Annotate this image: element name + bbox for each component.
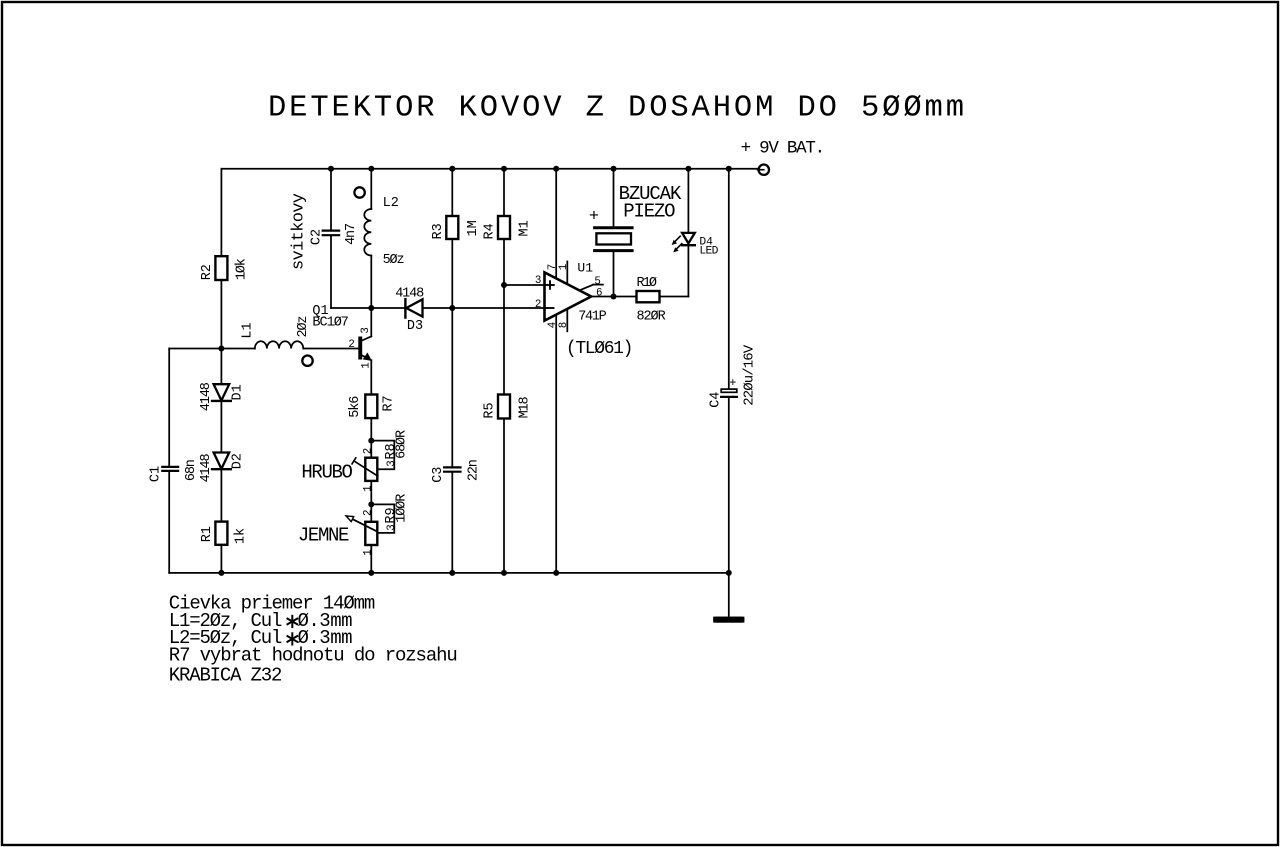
svg-text:68n: 68n [184,459,199,481]
battery terminal [759,165,769,175]
svg-text:22n: 22n [467,459,482,481]
transistor Q1 BC107 [358,337,362,360]
svg-text:R1: R1 [200,526,215,542]
svg-text:D2: D2 [231,453,246,469]
wire C3 to bottom rail [451,473,453,573]
svg-text:4n7: 4n7 [344,223,359,245]
junction dots pot nodes [368,438,374,444]
diode D2 4148 [220,453,222,469]
terminal circle of L1 [302,356,312,366]
svg-text:68ØR: 68ØR [395,430,410,459]
wire Q1 emitter to R7 [370,360,372,394]
diode D1 4148 [220,384,222,400]
wire R3 to node line [451,239,453,308]
svg-text:3: 3 [535,275,541,287]
svg-text:L1: L1 [240,322,255,338]
wire piezo branch top [613,169,615,226]
svg-text:82ØR: 82ØR [637,310,666,325]
op-amp U1 741P [545,272,592,320]
wire opamp pin3 input [504,284,545,286]
svg-text:3: 3 [360,327,372,333]
svg-text:BC1Ø7: BC1Ø7 [312,315,349,330]
svg-text:4148: 4148 [395,286,424,301]
svg-text:2: 2 [362,510,374,516]
svg-text:(TLØ61): (TLØ61) [566,339,634,359]
svg-text:1k: 1k [234,528,249,544]
junction dots top rail [328,166,334,172]
wire R2 to L1 node [220,280,222,349]
wire R9 to bottom rail [370,545,372,573]
resistor R10 820R horizontal [637,291,660,302]
svg-text:R5: R5 [483,402,498,418]
svg-text:22Øu/16V: 22Øu/16V [742,344,758,406]
diode D3 4148 horizontal [404,299,406,318]
svg-text:JEMNE: JEMNE [298,524,350,546]
svg-text:741P: 741P [578,310,607,325]
wire LED branch lower [687,246,689,296]
svg-text:2Øz: 2Øz [296,316,311,338]
svg-text:8: 8 [558,322,570,328]
wire L1 node to D1 [220,349,222,385]
wire top +9V rail [221,168,758,170]
svg-text:5: 5 [594,276,600,288]
wire C4 branch top [728,169,730,389]
wire C2 corner to D3 node line [331,307,404,309]
wire R9 wiper connection [371,504,394,533]
wire R9 node to R9 [370,504,372,521]
svg-text:C4: C4 [708,392,723,408]
wire node line to C3 [451,308,453,466]
wire C1 column lower [168,472,170,573]
wire opamp pin4 to bottom rail [555,315,557,573]
wire R1 to bottom rail [220,545,222,573]
svg-text:+: + [729,376,736,390]
title [268,92,964,126]
wire R10 to LED corner [660,296,689,298]
svg-text:+: + [589,207,599,226]
svg-text:C2: C2 [310,229,325,245]
svg-text:L2: L2 [383,196,399,211]
resistor R5 M18 [498,395,510,419]
potentiometer R9 100R JEMNE [365,522,377,545]
svg-text:2: 2 [348,339,354,351]
capacitor C3 22n [444,466,460,468]
svg-text:2: 2 [535,299,541,311]
svg-text:R1Ø: R1Ø [637,276,658,291]
junction dot pin3 node [501,282,507,288]
wire opamp pin7 supply [555,169,557,279]
potentiometer R8 680R HRUBO [365,458,377,481]
wire R8 node to R8 [370,441,372,458]
svg-text:M1: M1 [518,220,533,236]
svg-text:1: 1 [362,485,374,491]
op-amp pin1 stub [566,262,568,285]
wire left branch horizontal to C1 column [169,348,221,350]
op-amp minus mark [547,307,554,309]
wire R4 to pin3 node [503,239,505,285]
svg-text:1: 1 [362,549,374,555]
svg-text:R2: R2 [200,264,215,280]
svg-text:C1: C1 [149,466,164,482]
capacitor C2 4n7 [323,230,339,232]
svg-text:M18: M18 [518,396,533,418]
junction dot L1 node [218,346,224,352]
svg-text:1: 1 [558,264,570,270]
inductor L2 labels [383,196,405,268]
inductor L2 with lead wires [370,169,372,209]
LED D4 [682,233,695,244]
svg-text:D3: D3 [407,319,423,334]
wire C4 to bottom rail [728,398,730,573]
resistor R1 1k [215,522,227,545]
op-amp plus mark [546,284,554,286]
wire D2 to R1 [220,469,222,521]
svg-text:PIEZO: PIEZO [623,200,675,222]
svg-text:1Øk: 1Øk [235,258,250,280]
wire bottom ground rail [169,572,729,574]
svg-text:5Øz: 5Øz [383,253,405,268]
wire C1 column upper [168,349,170,466]
wire R8 to R9 node [370,481,372,505]
svg-text:R4: R4 [483,223,498,239]
wire R8 wiper connection [371,441,394,470]
junction dots bottom rail [218,570,224,576]
svg-text:+ 9V BAT.: + 9V BAT. [741,139,826,159]
wire piezo bottom to output node [613,252,615,296]
svg-text:svitkovy: svitkovy [290,193,309,270]
wire R3 branch top [451,169,453,216]
junction dot output node [611,294,617,300]
asterisk star marks [287,616,297,627]
wire D1 to D2 [220,401,222,453]
LED photon arrows [675,236,681,242]
svg-text:1M: 1M [466,220,481,236]
resistor R2 10k [215,256,227,280]
wire R7 to R8 node [370,418,372,441]
capacitor C1 68n [162,466,178,468]
op-amp pin5 stub [580,285,594,291]
svg-text:R7 vybrat hodnotu do rozsahu: R7 vybrat hodnotu do rozsahu [169,645,458,667]
wire R4 branch top [503,169,505,216]
svg-text:R3: R3 [431,223,446,239]
svg-text:LED: LED [699,245,718,257]
resistor R4 M1 [498,216,510,239]
svg-text:C3: C3 [431,467,446,483]
svg-text:D1: D1 [231,384,246,400]
svg-text:R7: R7 [382,395,397,411]
wire bottom rail to ground [728,573,730,617]
wire D3 to opamp pin2 node line [423,307,554,309]
svg-text:4148: 4148 [199,382,214,411]
svg-text:5k6: 5k6 [348,396,363,418]
wire LED branch upper [687,169,689,232]
piezo buzzer [595,226,633,229]
wire R2 branch top [220,169,222,256]
svg-text:U1: U1 [577,260,593,275]
terminal circle of L2 [354,187,364,197]
ground symbol [716,617,741,623]
wire pin3 node down through R5 to bottom rail [503,285,505,395]
svg-text:HRUBO: HRUBO [301,462,353,484]
resistor R3 1M [446,216,458,239]
wire C2 branch bottom [330,236,332,308]
svg-text:3: 3 [386,460,398,466]
wire opamp output pin6 [591,296,636,298]
svg-text:6: 6 [596,288,602,300]
junction dots node line [368,305,374,311]
svg-text:2: 2 [362,448,374,454]
svg-text:3: 3 [386,524,398,530]
svg-text:1: 1 [361,362,373,368]
inductor L1 with lead wires [221,348,254,350]
svg-text:1ØØR: 1ØØR [395,494,410,523]
notes text block [169,593,375,650]
svg-text:4148: 4148 [199,453,214,482]
wire C2 branch top [330,169,332,230]
capacitor C4 220u/16V electrolytic [721,389,737,392]
resistor R7 5k6 [365,395,377,419]
svg-text:KRABICA Z32: KRABICA Z32 [169,664,283,686]
op-amp pin8 stub [566,309,568,331]
